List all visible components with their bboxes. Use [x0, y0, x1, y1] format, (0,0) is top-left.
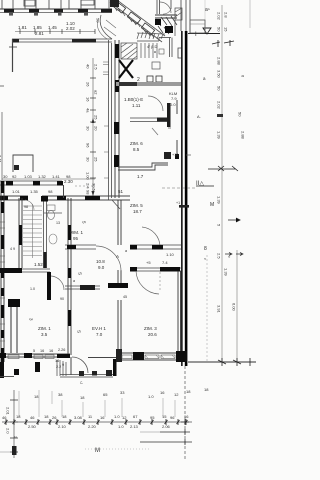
- east block top lines: [157, 0, 190, 33]
- zim6 south wall jog: [118, 163, 168, 170]
- room label zim1: [38, 326, 51, 337]
- svg-text:2.02: 2.02: [66, 26, 75, 31]
- svg-text:1.0: 1.0: [118, 424, 124, 429]
- tiny dims texture below facade: [55, 359, 64, 369]
- svg-text:90: 90: [60, 297, 64, 301]
- room wm1 label: [70, 230, 83, 241]
- svg-text:9.0: 9.0: [98, 265, 105, 270]
- bay inner diagonal marks: [97, 20, 116, 39]
- svg-text:3.08: 3.08: [74, 415, 83, 420]
- svg-text:18: 18: [16, 414, 21, 419]
- svg-text:1.41: 1.41: [52, 174, 61, 179]
- window tick marks on west wall: [0, 222, 5, 341]
- svg-text:2.13: 2.13: [130, 424, 139, 429]
- door leaf corridor: [152, 128, 158, 135]
- svg-text:46: 46: [30, 415, 35, 420]
- svg-text:16: 16: [86, 97, 91, 102]
- svg-text:98: 98: [66, 174, 71, 179]
- svg-text:5: 5: [33, 349, 35, 353]
- window sills bottom left: [8, 355, 54, 359]
- bottom dim chain row1: [34, 387, 209, 400]
- right dim rotated numbers: [217, 12, 246, 314]
- wall: top row room partitions: [2, 0, 109, 9]
- svg-text:4 9: 4 9: [10, 247, 15, 251]
- right dim column main line: [221, 5, 223, 362]
- chimney lines lower left: [11, 300, 17, 353]
- svg-text:ZIM. 3: ZIM. 3: [144, 326, 157, 331]
- bay hatch band end: [137, 32, 165, 39]
- niche jog on heavy wall inner face: [178, 48, 181, 58]
- svg-text:1.11: 1.11: [132, 103, 141, 108]
- svg-text:1.B0(1)·E: 1.B0(1)·E: [124, 97, 143, 102]
- svg-text:45: 45: [123, 295, 127, 299]
- bath east wall double: [170, 38, 173, 58]
- wc fixture: [47, 205, 55, 220]
- svg-text:18.7: 18.7: [133, 209, 142, 214]
- svg-text:12: 12: [174, 392, 179, 397]
- svg-text:1.0: 1.0: [114, 414, 120, 419]
- svg-text:3.50: 3.50: [217, 70, 222, 79]
- svg-text:ZIM. 6: ZIM. 6: [130, 141, 143, 146]
- svg-text:13: 13: [56, 221, 60, 225]
- balcony bay diagonal top: [100, 0, 165, 42]
- svg-text:18: 18: [62, 414, 67, 419]
- svg-text:3.5: 3.5: [41, 332, 48, 337]
- dim numbers under wall A: [12, 189, 53, 194]
- svg-text:a2: a2: [94, 90, 99, 95]
- svg-text:1.39: 1.39: [224, 268, 229, 277]
- svg-text:2.5: 2.5: [94, 64, 99, 70]
- center-top wall of lower block: [65, 245, 96, 249]
- svg-text:16: 16: [49, 349, 53, 353]
- svg-text:96: 96: [86, 143, 91, 148]
- svg-text:1.10: 1.10: [166, 252, 175, 257]
- svg-text:S: S: [78, 272, 83, 275]
- dashed section line y188: [162, 187, 196, 189]
- svg-text:2.30: 2.30: [64, 179, 73, 184]
- stair lower: [23, 204, 42, 258]
- svg-text:46: 46: [2, 415, 7, 420]
- hatch box: [175, 8, 182, 20]
- upper building west inner wall: [115, 40, 119, 198]
- courtyard left wall stub: [12, 39, 14, 72]
- svg-text:98: 98: [48, 189, 53, 194]
- upper building west facade: [109, 40, 112, 200]
- bath room top wall: [137, 38, 171, 42]
- svg-text:2.10: 2.10: [58, 424, 67, 429]
- room zim right label: [130, 203, 143, 214]
- svg-text:95: 95: [150, 415, 155, 420]
- svg-text:30: 30: [86, 157, 91, 162]
- chimney X box: [119, 60, 133, 78]
- svg-text:1.85: 1.85: [33, 25, 42, 30]
- svg-text:A.: A.: [197, 114, 201, 119]
- wall y247 right: [130, 245, 181, 249]
- svg-text:2.88: 2.88: [241, 131, 246, 140]
- door symbol box: [159, 49, 164, 54]
- shower rect bath: [152, 62, 160, 69]
- north wall lower block A: [0, 181, 62, 185]
- svg-text:WM. 1: WM. 1: [70, 230, 83, 235]
- svg-text:25: 25: [94, 157, 99, 162]
- bottom dim chain row2 line: [2, 421, 192, 423]
- svg-text:2.02: 2.02: [217, 101, 222, 110]
- interior wall x20: [19, 198, 22, 268]
- svg-text:50: 50: [217, 86, 222, 91]
- column stubs below facade band: [9, 13, 88, 16]
- svg-text:92: 92: [12, 174, 17, 179]
- svg-text:30.5: 30.5: [92, 183, 97, 192]
- svg-text:26: 26: [86, 82, 91, 87]
- wc room south wall: [44, 212, 62, 214]
- tiny dims above facade: [33, 348, 65, 353]
- facade thin line over porch: [88, 357, 116, 359]
- porch left hatch pier: [57, 360, 66, 376]
- svg-text:2.20: 2.20: [88, 424, 97, 429]
- left vertical dim line: [1, 112, 3, 180]
- svg-text:1.39: 1.39: [217, 131, 222, 140]
- wc door arc: [25, 200, 34, 210]
- door arc bad: [148, 96, 163, 111]
- svg-text:+1: +1: [176, 201, 180, 205]
- right dim second line: [236, 250, 238, 362]
- left wall below: [0, 362, 4, 378]
- wall x120 mid: [118, 200, 121, 285]
- room evh label: [92, 326, 106, 337]
- faint line right of wall top: [204, 0, 206, 33]
- room zim bottom label: [144, 326, 157, 337]
- svg-text:2.41: 2.41: [0, 155, 3, 164]
- svg-text:6.00: 6.00: [232, 303, 237, 312]
- porch posts: [79, 370, 112, 376]
- svg-text:18: 18: [34, 394, 39, 399]
- svg-text:ZIM. 5: ZIM. 5: [130, 203, 143, 208]
- interior wall x69: [68, 198, 71, 355]
- svg-text:30: 30: [86, 126, 91, 131]
- bottom facade wall left part: [0, 354, 70, 357]
- svg-text:4a: 4a: [86, 108, 91, 113]
- door leaf at courtyard corner: [112, 200, 120, 209]
- svg-text:10.8: 10.8: [96, 259, 105, 264]
- svg-text:98: 98: [24, 205, 28, 209]
- svg-text:50: 50: [96, 18, 101, 23]
- svg-text:16: 16: [160, 390, 165, 395]
- entrance porch floor: [60, 375, 113, 378]
- box right of wall: [190, 20, 205, 33]
- svg-text:96: 96: [170, 415, 175, 420]
- svg-text:20.6: 20.6: [148, 332, 157, 337]
- svg-text:+10: +10: [172, 153, 178, 157]
- svg-text:8.5: 8.5: [133, 147, 140, 152]
- wall: top facade band: [0, 8, 112, 10]
- svg-text:38: 38: [58, 392, 63, 397]
- svg-text:50: 50: [238, 112, 243, 117]
- svg-text:2.8: 2.8: [224, 12, 229, 18]
- svg-text:II△: II△: [196, 181, 204, 187]
- svg-text:2.02: 2.02: [217, 12, 222, 21]
- svg-text:2.4: 2.4: [86, 183, 91, 189]
- svg-text:95: 95: [73, 236, 79, 241]
- bad room label: [124, 97, 143, 108]
- svg-text:50: 50: [217, 27, 222, 32]
- corridor wall y118: [130, 118, 168, 122]
- svg-text:65: 65: [103, 392, 108, 397]
- north wall lower block B: [0, 196, 130, 200]
- wc west wall: [44, 196, 47, 268]
- KLM text right of room: [169, 91, 177, 107]
- dashed vertical x185 bottom: [184, 366, 186, 460]
- level tick on party wall: [179, 205, 189, 208]
- right dim tick crosses: [196, 40, 240, 222]
- porch step pier: [113, 359, 117, 376]
- west facade window sills: [103, 62, 109, 178]
- svg-text:1.0: 1.0: [148, 394, 154, 399]
- svg-text:2.5: 2.5: [217, 253, 222, 259]
- svg-text:+5: +5: [146, 260, 151, 265]
- window sills bottom right: [122, 355, 175, 359]
- entrance door arc: [72, 357, 88, 373]
- svg-text:S: S: [77, 330, 82, 333]
- svg-text:0.0: 0.0: [170, 102, 176, 107]
- svg-text:ZIM. 1: ZIM. 1: [38, 326, 51, 331]
- svg-text:1.52: 1.52: [34, 262, 43, 267]
- svg-text:33: 33: [120, 390, 125, 395]
- wall x120 low: [118, 300, 121, 355]
- svg-text:a: a: [125, 249, 127, 253]
- door arc below: [136, 271, 159, 294]
- svg-text:2.50: 2.50: [28, 424, 37, 429]
- bottom facade right part: [122, 353, 181, 360]
- bath fixtures: [147, 76, 162, 82]
- door arcs top right: [160, 2, 171, 13]
- svg-text:18: 18: [44, 414, 49, 419]
- interior wall x48: [47, 272, 51, 300]
- svg-text:EV.H 1: EV.H 1: [92, 326, 106, 331]
- stair top right hatch: [155, 15, 177, 34]
- svg-text:98: 98: [86, 190, 91, 195]
- svg-text:18: 18: [186, 389, 191, 394]
- mid horizontal wall left: [0, 268, 22, 273]
- svg-text:M: M: [210, 202, 214, 208]
- witness ticks under chain row1: [19, 390, 175, 417]
- svg-text:67: 67: [133, 414, 138, 419]
- svg-text:15: 15: [224, 27, 229, 32]
- wall y269 right: [130, 268, 181, 271]
- wall: party wall heavy double line: [181, 31, 187, 366]
- room zim6 label: [130, 141, 143, 152]
- svg-text:1.39: 1.39: [217, 196, 222, 205]
- svg-text:1.35: 1.35: [30, 189, 39, 194]
- svg-text:1.01: 1.01: [12, 189, 21, 194]
- svg-text:2.0: 2.0: [6, 428, 11, 434]
- wall x180 low: [178, 271, 181, 355]
- svg-text:8: 8: [204, 246, 207, 252]
- hatched bars on diagonal bay: [112, 1, 154, 35]
- svg-text:2.06: 2.06: [162, 424, 171, 429]
- svg-text:40: 40: [86, 64, 91, 69]
- horizontal dim chain y177: [2, 178, 95, 180]
- corridor stub wall: [167, 103, 171, 127]
- svg-text:51: 51: [118, 189, 124, 194]
- svg-text:M: M: [95, 448, 100, 454]
- svg-text:30: 30: [3, 174, 8, 179]
- level mark top right: [188, 28, 220, 38]
- door arc zim right: [142, 227, 160, 247]
- bottom boundary line right: [188, 361, 256, 363]
- svg-text:2.88: 2.88: [217, 57, 222, 66]
- svg-text:7.9: 7.9: [171, 96, 177, 101]
- svg-text:15: 15: [162, 414, 167, 419]
- speckle dims lower block: [10, 205, 127, 301]
- svg-text:16: 16: [100, 415, 105, 420]
- stair treads top: [141, 43, 157, 58]
- svg-text:2.26: 2.26: [58, 348, 65, 352]
- door arc hall: [51, 276, 64, 290]
- wall x63 strip: [63, 185, 65, 198]
- svg-text:ℒ: ℒ: [80, 380, 83, 385]
- west outer wall lower: [1, 181, 4, 362]
- courtyard top wall: [12, 39, 112, 42]
- svg-text:1.03: 1.03: [24, 174, 33, 179]
- shaft rect left: [13, 155, 33, 172]
- svg-text:12: 12: [122, 415, 127, 420]
- svg-text:20: 20: [94, 126, 99, 131]
- svg-text:a: a: [73, 279, 75, 283]
- svg-text:1.81: 1.81: [18, 25, 27, 30]
- svg-text:26: 26: [52, 415, 57, 420]
- bottom dim chain row2 numbers: [2, 414, 189, 420]
- svg-text:4′ β D: 4′ β D: [147, 44, 157, 49]
- big door arc center top: [96, 246, 121, 271]
- small tick left margin: [0, 85, 4, 87]
- svg-text:7.0: 7.0: [96, 332, 103, 337]
- left bottom dim vertical: [13, 390, 15, 458]
- tick cross on courtyard wall: [9, 44, 17, 50]
- bath south wall grey band: [116, 82, 181, 86]
- stair hatch box top: [121, 43, 137, 59]
- svg-text:3.91: 3.91: [217, 305, 222, 314]
- wall y286 center: [65, 286, 100, 289]
- svg-text:18: 18: [80, 395, 85, 400]
- svg-text:18: 18: [204, 387, 209, 392]
- svg-text:aⁿ: aⁿ: [205, 7, 210, 13]
- sink fixture small: [49, 234, 57, 244]
- dark blob bay top: [110, 0, 119, 7]
- center room labels: [96, 259, 105, 270]
- svg-text:1.32: 1.32: [38, 174, 47, 179]
- svg-text:16: 16: [40, 349, 44, 353]
- corridor east thin wall: [176, 100, 178, 159]
- svg-text:1.7: 1.7: [137, 174, 144, 179]
- scale M line: [85, 448, 150, 450]
- svg-text:7.4: 7.4: [162, 260, 168, 265]
- side stoop line left: [0, 376, 14, 378]
- facade wall piece right of porch: [116, 349, 122, 362]
- dim chain above courtyard: [18, 18, 101, 36]
- svg-text:1.45: 1.45: [48, 25, 57, 30]
- svg-text:25: 25: [94, 115, 99, 120]
- vertical dim line mid: [92, 58, 94, 196]
- stair inner rail: [174, 20, 176, 36]
- svg-text:1.0: 1.0: [30, 287, 35, 291]
